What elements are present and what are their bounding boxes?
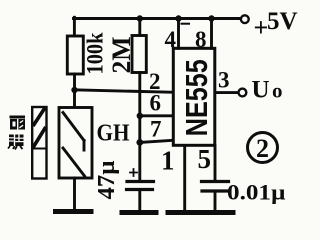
svg-text:7: 7	[150, 117, 162, 142]
node: junction pin7 wire	[136, 139, 143, 146]
capacitor C2 0.01u plates	[202, 182, 229, 192]
node: junction R1/GH/pin2	[71, 87, 77, 93]
node: rail junction pin4	[175, 15, 181, 21]
wire: pin 7 wire to IC	[140, 140, 175, 142]
svg-text:3: 3	[218, 68, 230, 93]
svg-text:NE555: NE555	[179, 59, 214, 136]
ground: below C1	[122, 210, 156, 215]
reed switch GH envelope	[59, 108, 92, 179]
svg-text:4: 4	[165, 27, 177, 52]
magnet divider line	[33, 148, 46, 150]
node: rail junction at 2M	[137, 15, 143, 21]
wire: pin 5 lead	[214, 146, 217, 180]
resistor R1 100k body	[67, 36, 83, 74]
reed switch GH contacts	[63, 113, 85, 177]
svg-text:47µ: 47µ	[94, 160, 120, 199]
wire: R1 bottom lead	[73, 74, 76, 90]
symbol: circled 2	[248, 133, 278, 163]
label: Chinese character tie (iron)	[8, 135, 24, 150]
svg-text:5: 5	[198, 144, 212, 174]
capacitor C1 plus mark	[130, 169, 137, 176]
wire: pin 2 wire to IC	[74, 90, 174, 93]
capacitor C1 47u plates	[127, 182, 154, 190]
wire: 2M top lead	[138, 17, 141, 36]
svg-text:2M: 2M	[107, 37, 136, 74]
op-amp U1 NE555 body	[173, 48, 215, 145]
svg-text:U: U	[252, 77, 270, 104]
svg-text:GH: GH	[97, 121, 130, 147]
wire: pin 4 lead	[177, 17, 180, 48]
svg-text:100k: 100k	[83, 32, 108, 74]
wire: C2 bottom lead	[214, 193, 217, 212]
wire: pin 8 lead	[210, 17, 213, 48]
magnet bar body	[32, 107, 46, 179]
svg-text:2: 2	[256, 134, 269, 163]
label: Chinese character ci (magnet)	[10, 116, 26, 130]
wire: pin 3 output wire	[215, 91, 238, 94]
magnet hatch stripes	[34, 109, 45, 147]
svg-text:5V: 5V	[267, 8, 298, 35]
wire: pin 6 wire to IC	[140, 114, 174, 117]
wire: GH top lead	[73, 90, 76, 108]
wire: C1 bottom lead	[138, 191, 141, 211]
wire: 2M bottom lead down to C1	[138, 73, 141, 181]
svg-text:1: 1	[161, 146, 175, 176]
terminal: Uo output circle	[239, 89, 247, 97]
ground: below GH	[56, 209, 92, 214]
ground: below C2	[201, 210, 233, 215]
wire: GH bottom lead	[73, 178, 76, 211]
svg-text:0.01µ: 0.01µ	[227, 180, 286, 205]
wire: rail left drop to R1 top	[73, 17, 76, 36]
resistor R2 2M body	[132, 36, 146, 73]
terminal: +5V circle	[241, 15, 249, 23]
wire: +5V top rail	[74, 17, 240, 20]
node: rail junction pin8	[208, 15, 214, 21]
ground: below pin 1	[168, 210, 199, 215]
svg-text:6: 6	[150, 91, 162, 116]
wire: pin 1 lead	[183, 146, 186, 211]
svg-text:o: o	[272, 79, 283, 103]
svg-text:8: 8	[195, 27, 207, 52]
wire: scan double-line below rail between pin4 and pin8	[182, 23, 190, 25]
node: junction pin6 wire	[137, 113, 143, 119]
